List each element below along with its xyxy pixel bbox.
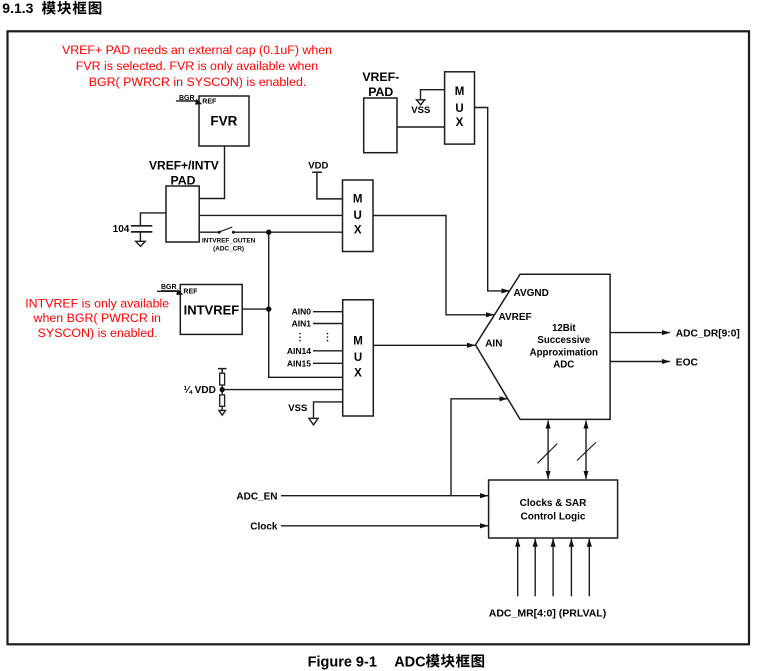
svg-text:FVR: FVR <box>210 113 237 128</box>
wire MUX U4 output to AIN <box>373 344 475 346</box>
svg-text:AIN0: AIN0 <box>292 307 312 317</box>
ADC_MR arrow 4 <box>570 539 572 597</box>
VREF+/INTV PAD box <box>166 186 199 242</box>
node junction quarter-VDD divider <box>220 387 225 392</box>
svg-text:when BGR( PWRCR in: when BGR( PWRCR in <box>33 311 161 325</box>
svg-text:PAD: PAD <box>170 173 195 187</box>
svg-text:EOC: EOC <box>676 357 699 368</box>
wire AIN0 <box>313 311 343 313</box>
wire ADC_EN <box>281 495 488 497</box>
svg-text:VDD: VDD <box>308 161 328 172</box>
svg-text:(ADC_CR): (ADC_CR) <box>213 246 244 253</box>
MUX U3 box middle <box>343 180 374 252</box>
MUX U2 box top <box>445 72 475 144</box>
svg-text:VREF-: VREF- <box>362 70 399 84</box>
wire R2 to ground <box>221 406 223 410</box>
ADC_MR arrow 3 <box>552 539 554 597</box>
svg-text:AIN: AIN <box>485 339 502 350</box>
arrowhead BGR into INTVREF <box>176 289 183 295</box>
svg-text:Control Logic: Control Logic <box>521 511 586 522</box>
wire ADC_DR output <box>610 332 670 334</box>
svg-text:M: M <box>455 86 465 98</box>
svg-text:Clocks & SAR: Clocks & SAR <box>520 498 587 509</box>
wire node vertical to MUX U4 <box>269 232 343 377</box>
svg-text:ADC_MR[4:0] (PRLVAL): ADC_MR[4:0] (PRLVAL) <box>489 608 606 620</box>
switch SW1 INTVREF_OUTEN arm <box>220 227 232 232</box>
VDD rail to MUX U3 <box>312 172 342 199</box>
svg-text:INTVREF: INTVREF <box>184 303 240 318</box>
svg-text:REF: REF <box>202 98 217 105</box>
wire INTVREF output <box>242 308 269 310</box>
ground VSS under MUX U2 <box>417 100 425 105</box>
svg-text:ADC_EN: ADC_EN <box>236 491 277 502</box>
VREF- PAD box <box>364 98 397 153</box>
wire BGR to INTVREF <box>157 290 178 292</box>
svg-text:Successive: Successive <box>537 335 590 346</box>
resistor R2 <box>220 395 225 406</box>
Clocks and SAR Control Logic U7 box <box>489 480 618 538</box>
wire MUX U4 to VSS ground <box>314 402 343 418</box>
ground below C1 <box>136 241 146 246</box>
svg-text:BGR: BGR <box>179 95 195 102</box>
svg-text:U: U <box>354 210 362 222</box>
svg-text:SYSCON) is enabled.: SYSCON) is enabled. <box>38 326 158 340</box>
bus arrow ADC-control right <box>585 421 587 479</box>
svg-text:U: U <box>455 103 463 115</box>
svg-text:Figure 9-1: Figure 9-1 <box>308 654 377 670</box>
wire R1 to node <box>221 385 223 395</box>
wire AIN14 <box>313 350 343 352</box>
svg-text:AIN14: AIN14 <box>287 346 311 356</box>
wire PAD to switch SW1 <box>199 231 218 233</box>
svg-text:U: U <box>354 352 362 364</box>
wire BGR to FVR <box>176 100 197 102</box>
svg-text:104: 104 <box>113 224 130 235</box>
heading CJK 模块框图 <box>42 1 56 15</box>
svg-text:VSS: VSS <box>288 403 307 414</box>
svg-text:VREF+ PAD needs an external ca: VREF+ PAD needs an external cap (0.1uF) … <box>62 43 332 57</box>
bus slash right <box>577 443 596 461</box>
svg-text:VSS: VSS <box>411 105 430 116</box>
svg-text:X: X <box>354 225 362 237</box>
svg-text:M: M <box>353 336 363 348</box>
bus slash left <box>538 444 558 464</box>
svg-text:INTVREF_OUTEN: INTVREF_OUTEN <box>202 237 256 244</box>
svg-text:Clock: Clock <box>250 522 278 533</box>
node junction at INTVREF output <box>266 306 271 311</box>
FVR U1 box <box>199 96 249 146</box>
svg-text:M: M <box>353 193 363 205</box>
svg-text:ADC: ADC <box>553 360 574 371</box>
wire quarter VDD node to MUX U4 <box>222 389 343 391</box>
wire MUX U3 output to AVREF <box>373 216 494 315</box>
wire AIN15 <box>313 362 343 364</box>
wire VREF+ PAD to MUX U3 input A <box>199 214 342 216</box>
ground below R2 <box>219 410 226 415</box>
wire MUX U2 to VSS ground <box>421 90 445 100</box>
resistor R1 <box>220 373 225 385</box>
ground VSS under MUX U4 <box>309 418 318 425</box>
capacitor C1 stem <box>139 232 141 241</box>
svg-text:PAD: PAD <box>368 85 393 99</box>
svg-text:X: X <box>354 367 362 379</box>
wire switch to MUX U3 input B <box>235 231 343 233</box>
svg-text:AIN1: AIN1 <box>292 319 312 329</box>
bus arrow ADC-control left <box>547 421 549 479</box>
svg-text:AIN15: AIN15 <box>287 358 311 368</box>
dots ellipsis column A <box>299 333 301 335</box>
node junction at switch output <box>266 230 271 235</box>
wire PAD to capacitor C1 <box>140 213 166 226</box>
wire MUX U2 output to AVGND <box>475 108 510 291</box>
svg-text:Approximation: Approximation <box>530 347 598 358</box>
svg-text:BGR( PWRCR in SYSCON) is enabl: BGR( PWRCR in SYSCON) is enabled. <box>89 75 307 89</box>
capacitor C1 plates (104) <box>131 226 152 232</box>
ADC_MR arrow 5 <box>588 539 590 597</box>
svg-text:9.1.3: 9.1.3 <box>2 0 33 16</box>
svg-text:AVGND: AVGND <box>514 288 549 299</box>
svg-text:AVREF: AVREF <box>499 312 532 323</box>
wire AIN1 <box>313 323 343 325</box>
svg-text:VREF+/INTV: VREF+/INTV <box>149 159 219 173</box>
INTVREF U5 box <box>180 285 242 335</box>
svg-text:12Bit: 12Bit <box>552 323 576 334</box>
svg-text:X: X <box>456 117 464 129</box>
wire Clock <box>281 525 488 527</box>
wire EOC output <box>610 361 670 363</box>
arrowhead BGR into FVR <box>195 99 202 105</box>
svg-text:REF: REF <box>183 289 198 296</box>
dots ellipsis column B <box>327 333 329 335</box>
ADC U6 12-bit SAR pentagon <box>476 274 611 419</box>
wire VREF- PAD to MUX U2 <box>397 126 445 128</box>
VDD rail above resistor R1 <box>218 369 227 374</box>
svg-text:FVR is selected. FVR is only a: FVR is selected. FVR is only available w… <box>76 59 319 73</box>
wire FVR output to VREF+ PAD <box>199 146 224 199</box>
MUX U4 box analog-input <box>343 300 374 416</box>
svg-text:ADC_DR[9:0]: ADC_DR[9:0] <box>676 328 740 339</box>
wire ADC_EN branch to ADC <box>451 399 507 496</box>
switch SW1 contact dots <box>218 231 221 234</box>
svg-text:¼ VDD: ¼ VDD <box>184 385 216 396</box>
ADC_MR arrow 1 <box>517 539 519 597</box>
svg-text:ADC: ADC <box>394 654 426 670</box>
ADC_MR arrow 2 <box>534 539 536 597</box>
svg-text:INTVREF is only available: INTVREF is only available <box>25 297 169 311</box>
svg-text:BGR: BGR <box>161 284 177 291</box>
